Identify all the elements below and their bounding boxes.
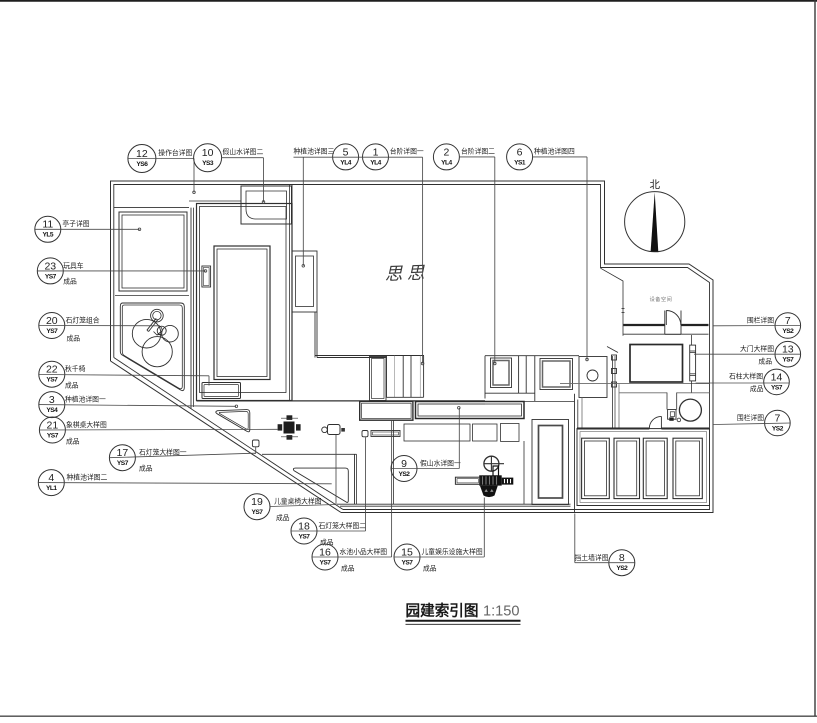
courtyard path east line [193, 208, 195, 407]
planter C inner [543, 361, 571, 387]
svg-text:YS7: YS7 [771, 384, 783, 391]
callout 1/YL4 [363, 144, 389, 170]
leader of 21 [39, 428, 277, 431]
svg-text:YS7: YS7 [299, 533, 311, 540]
label of 12 [158, 148, 192, 157]
gate box [630, 345, 683, 383]
label of 23 [63, 261, 84, 286]
svg-text:儿童桌椅大样图: 儿童桌椅大样图 [274, 497, 322, 506]
svg-text:6: 6 [517, 146, 523, 158]
leader of 20 [39, 325, 160, 327]
svg-text:假山水详图二: 假山水详图二 [223, 147, 264, 156]
planter B outer [491, 358, 512, 388]
deck platform outer [214, 246, 270, 380]
sheet border bottom [0, 715, 817, 717]
callout 22/YS7 [39, 361, 65, 387]
svg-text:种植池详图三: 种植池详图三 [294, 147, 335, 156]
pavilion planter inner [122, 215, 184, 288]
leader of 7 upper [713, 325, 801, 327]
svg-text:4: 4 [48, 472, 54, 484]
label of 17 [139, 448, 187, 473]
svg-text:成品: 成品 [341, 564, 355, 573]
tall planter inner [539, 426, 563, 499]
label of 5 [294, 147, 335, 156]
svg-text:YS3: YS3 [202, 160, 214, 167]
site boundary inner line [114, 185, 710, 510]
triangle planter one [216, 410, 250, 432]
equipment wall ticks [622, 309, 625, 313]
equipment space label [650, 295, 673, 303]
tall planter outer [532, 420, 569, 505]
chess table [278, 415, 301, 439]
deck block outer [197, 204, 293, 401]
label of 15 [422, 547, 483, 573]
callout 7/YS2 lower [765, 410, 791, 436]
svg-text:玩具车: 玩具车 [63, 261, 84, 270]
deck block inner [200, 207, 287, 393]
callout 10/YS3 [194, 144, 222, 172]
leader of 18 [291, 437, 366, 531]
svg-text:大门大样图: 大门大样图 [740, 344, 774, 353]
svg-text:北: 北 [649, 179, 660, 191]
yard door [649, 416, 661, 428]
svg-text:秋千椅: 秋千椅 [65, 364, 86, 373]
pool outer [360, 401, 413, 420]
gate forecourt second line [619, 392, 710, 394]
svg-text:成品: 成品 [66, 437, 80, 446]
leader of 6 [533, 157, 589, 361]
svg-text:成品: 成品 [276, 513, 290, 522]
site boundary diagonal inner [114, 358, 343, 510]
svg-text:YS7: YS7 [47, 432, 59, 439]
leader of 12 [128, 159, 195, 194]
svg-text:YS7: YS7 [782, 357, 794, 364]
north arrow needle [651, 192, 659, 251]
leader of 8 [575, 514, 635, 563]
label of 2 [461, 147, 495, 156]
rockery water planter inner [246, 191, 287, 219]
svg-text:台阶详图一: 台阶详图一 [390, 147, 424, 156]
callout 11/YL5 [35, 216, 61, 242]
label of 6 [534, 147, 575, 156]
children table icon [322, 425, 345, 435]
zone divider east [575, 394, 578, 513]
house name text [384, 262, 429, 284]
pool inner [362, 403, 412, 418]
svg-text:成品: 成品 [758, 357, 772, 366]
label of 16 [340, 547, 388, 573]
callout 14/YS7 [764, 369, 790, 395]
label of 13 [740, 344, 774, 366]
svg-text:成品: 成品 [139, 464, 153, 473]
svg-text:成品: 成品 [320, 538, 334, 547]
east terrace walls [485, 356, 575, 402]
stone lantern pole [147, 318, 158, 331]
label of 21 [66, 420, 107, 446]
planting bed four block [579, 357, 607, 398]
house west wall [315, 312, 317, 358]
pergola strip bottom line [114, 207, 189, 209]
planting bed four circle [587, 370, 598, 381]
svg-text:YS4: YS4 [46, 407, 58, 414]
fence corner diagonal [607, 347, 618, 353]
callout 9/YS2 [391, 456, 417, 482]
sheet border top [0, 0, 817, 2]
callout 13/YS7 [775, 341, 801, 367]
leader of 2 [459, 157, 496, 365]
deck platform inner [217, 249, 267, 377]
leader of 9 [391, 407, 460, 469]
svg-text:YS2: YS2 [782, 328, 794, 335]
svg-text:5: 5 [343, 146, 349, 158]
planting bed three outer [292, 251, 317, 312]
north arrow circle [625, 192, 685, 252]
planting bed three inner [296, 256, 314, 307]
callout 16/YS7 [312, 544, 338, 570]
title text [406, 602, 520, 620]
svg-text:设备空间: 设备空间 [650, 295, 673, 303]
svg-text:石灯笼大样图二: 石灯笼大样图二 [319, 521, 367, 530]
rockery water planter outer [241, 186, 292, 224]
cell 2 [614, 438, 640, 498]
svg-text:1: 1 [373, 146, 379, 158]
svg-text:7: 7 [774, 412, 780, 424]
kids area north wall [262, 453, 357, 455]
kids area west wall [355, 454, 357, 504]
svg-text:石灯笼组合: 石灯笼组合 [66, 316, 100, 325]
svg-text:种植池详图四: 种植池详图四 [534, 147, 575, 156]
callout 21/YS7 [39, 417, 65, 443]
svg-text:YL5: YL5 [43, 232, 54, 239]
svg-text:象棋桌大样图: 象棋桌大样图 [66, 420, 107, 429]
site boundary outer line [111, 181, 714, 513]
triangle planter two [293, 468, 348, 502]
site boundary diagonal outer [111, 361, 342, 513]
pentagon planter inner [122, 305, 182, 389]
svg-text:围栏详图: 围栏详图 [737, 413, 764, 422]
title underline thin [406, 623, 521, 625]
planter at steps inner [372, 359, 385, 399]
cell 3 [643, 438, 667, 498]
forecourt inner walls [619, 384, 677, 428]
svg-text:10: 10 [202, 147, 214, 159]
callout 18/YS7 [291, 518, 317, 544]
leader of 23 [37, 270, 207, 273]
callout 8/YS2 [609, 550, 635, 576]
walkway south inner pair [337, 504, 571, 506]
cell 4 [673, 438, 702, 498]
kids area inner wall [393, 420, 395, 504]
svg-text:成品: 成品 [67, 334, 81, 343]
cells block outer [577, 429, 710, 506]
leader of 3 [39, 405, 238, 408]
label of 7 upper [747, 316, 774, 325]
toy car [202, 266, 211, 287]
svg-text:成品: 成品 [63, 277, 77, 286]
svg-text:假山水详图一: 假山水详图一 [420, 459, 461, 468]
equipment space west wall [601, 268, 624, 336]
leader of 11 [35, 228, 141, 231]
stone lantern two [252, 440, 259, 447]
svg-text:YS1: YS1 [514, 159, 526, 166]
gate post column [690, 335, 696, 393]
stone lantern composition circles [132, 319, 178, 366]
callout 5/YL4 [333, 144, 359, 170]
callout 7/YS2 upper [775, 313, 801, 339]
callout 12/YS6 [128, 145, 156, 173]
deck strip line [189, 200, 241, 202]
svg-text:YL1: YL1 [46, 485, 57, 492]
band secondary line [420, 403, 485, 405]
svg-text:YS7: YS7 [320, 559, 332, 566]
svg-text:围栏详图: 围栏详图 [747, 316, 774, 325]
planter B inner [493, 361, 509, 386]
svg-text:成品: 成品 [65, 381, 79, 390]
svg-text:1:150: 1:150 [483, 604, 520, 620]
north label [649, 179, 660, 191]
pavilion planter outer [119, 212, 187, 291]
svg-text:YS7: YS7 [46, 328, 58, 335]
callout 3/YS4 [39, 392, 65, 418]
svg-text:石柱大样图: 石柱大样图 [729, 372, 763, 381]
svg-text:YS7: YS7 [402, 559, 414, 566]
band bottom thick line [197, 400, 486, 402]
svg-text:3: 3 [49, 394, 55, 406]
label of 20 [66, 316, 100, 343]
courtyard path west line [190, 208, 192, 409]
planter at steps outer [370, 357, 387, 401]
leader of 22 [39, 375, 209, 386]
leader of 15 [394, 498, 484, 558]
equipment space south wall [623, 333, 708, 335]
sheet border right [814, 0, 816, 716]
leader of 5 and 1 [294, 157, 424, 365]
label of 3 [65, 395, 106, 404]
swing chair inner [204, 385, 239, 397]
svg-text:YS6: YS6 [136, 161, 148, 168]
label of 11 [62, 219, 89, 228]
svg-text:YS7: YS7 [46, 377, 58, 384]
svg-text:操作台详图: 操作台详图 [158, 148, 192, 157]
svg-text:YS7: YS7 [252, 509, 264, 516]
svg-text:水池小品大样图: 水池小品大样图 [340, 547, 388, 556]
callout 20/YS7 [39, 313, 65, 339]
block divider line [115, 295, 189, 297]
leader of 17 [109, 447, 255, 458]
svg-text:YL4: YL4 [340, 159, 351, 166]
svg-text:挡土墙详图: 挡土墙详图 [575, 553, 609, 562]
svg-text:儿童娱乐设施大样图: 儿童娱乐设施大样图 [422, 547, 483, 556]
stone lantern one [362, 431, 368, 437]
svg-text:YS2: YS2 [399, 471, 411, 478]
fence post 1 [612, 355, 617, 360]
callout 6/YS1 [507, 144, 533, 170]
label of 8 [575, 553, 609, 562]
long planter outer [416, 402, 525, 419]
callout 15/YS7 [394, 544, 420, 570]
svg-text:YL4: YL4 [441, 159, 452, 166]
svg-text:YS7: YS7 [45, 273, 57, 280]
callout 4/YL1 [38, 470, 64, 496]
fence post 2 [612, 369, 617, 374]
title underline thick [406, 620, 521, 622]
leader of 19 [270, 435, 336, 507]
cells top thick wall [577, 428, 709, 430]
house south wall left [315, 356, 424, 358]
east terrace west wall [484, 356, 486, 399]
svg-text:YS2: YS2 [772, 425, 784, 432]
gate yard west wall pair [613, 356, 616, 429]
svg-text:亭子详图: 亭子详图 [62, 219, 89, 228]
svg-text:台阶详图二: 台阶详图二 [461, 147, 495, 156]
equipment door [665, 311, 681, 335]
gate forecourt north line [560, 383, 710, 385]
fence thick line [623, 324, 708, 326]
label of 19 [274, 497, 322, 523]
leader of 13 [694, 353, 801, 355]
callout 19/YS7 [244, 494, 270, 520]
svg-text:成品: 成品 [423, 564, 437, 573]
label of 4 [67, 473, 108, 482]
kids area east wall [523, 441, 525, 504]
leader of 7 lower [713, 423, 790, 425]
svg-text:2: 2 [443, 146, 449, 158]
svg-text:YS2: YS2 [616, 565, 628, 572]
stone lantern small mark [154, 326, 163, 336]
label of 9 [420, 459, 461, 468]
svg-text:22: 22 [46, 364, 58, 376]
bed row 1 [404, 424, 470, 441]
planter C outer [540, 359, 573, 390]
leader of 4 [38, 483, 331, 484]
callout 17/YS7 [109, 445, 135, 471]
svg-text:种植池详图二: 种植池详图二 [67, 473, 108, 482]
label of 7 lower [737, 413, 764, 422]
yard divider below bed four [581, 398, 583, 429]
pentagon planter outer [120, 303, 184, 391]
svg-text:7: 7 [785, 315, 791, 327]
cell 1 [582, 438, 610, 498]
label of 14 [729, 372, 764, 394]
svg-text:成品: 成品 [750, 384, 764, 393]
svg-text:YS7: YS7 [117, 460, 129, 467]
swing chair outer [202, 383, 241, 399]
bed row 3 [501, 424, 520, 442]
callout 23/YS7 [37, 258, 63, 284]
leader of 16 [312, 421, 392, 557]
play equipment [455, 456, 513, 497]
leader of 10 [222, 158, 265, 204]
stone lantern top double ring [151, 309, 164, 322]
leader of 14 [696, 382, 790, 384]
long planter inner [418, 404, 522, 416]
callout 2/YL4 [433, 144, 459, 170]
svg-text:YL4: YL4 [370, 159, 381, 166]
bed row 2 [473, 424, 498, 441]
steps one [387, 356, 424, 398]
fence post 3 [612, 382, 617, 387]
svg-text:19: 19 [251, 496, 263, 508]
svg-text:园建索引图: 园建索引图 [406, 602, 479, 620]
round feature circle [679, 399, 701, 421]
svg-text:14: 14 [771, 371, 783, 383]
bench [371, 431, 400, 437]
label of 18 [319, 521, 367, 547]
label of 1 [390, 147, 424, 156]
label of 10 [223, 147, 264, 156]
water feature small square [668, 410, 681, 422]
cells block inner [580, 432, 707, 503]
house south wall right [485, 355, 579, 357]
label of 22 [65, 364, 86, 390]
deck east edge upper extension [290, 185, 293, 401]
svg-text:种植池详图一: 种植池详图一 [65, 395, 106, 404]
